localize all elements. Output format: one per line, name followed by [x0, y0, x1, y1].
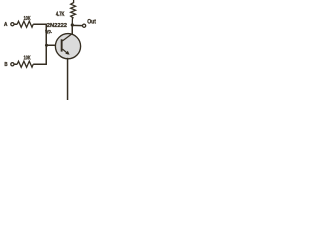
wire joining A and B branches (vertical) [45, 24, 47, 65]
svg-text:10K: 10K [24, 56, 32, 62]
wire base [47, 44, 62, 46]
svg-text:4.7K: 4.7K [56, 12, 65, 18]
wire to Out terminal [72, 24, 82, 26]
svg-text:Out: Out [87, 18, 96, 25]
junction base node [45, 44, 48, 47]
wire A terminal to resistor [14, 23, 17, 25]
junction collector node [71, 23, 74, 26]
wire R2 to joining node [33, 63, 46, 65]
wire R1 to joining node [33, 23, 46, 25]
resistor R2 10K (input B) [17, 61, 33, 67]
svg-text:A: A [4, 22, 8, 28]
resistor R3 4.7K (pull-up, vertical) [71, 0, 76, 24]
svg-text:typ.: typ. [45, 29, 52, 35]
svg-text:10K: 10K [24, 16, 32, 22]
svg-text:B: B [4, 62, 7, 68]
wire B terminal to resistor [14, 63, 17, 65]
terminal A [11, 23, 14, 26]
terminal B [11, 63, 14, 66]
wire collector up [71, 25, 73, 34]
resistor R1 10K (input A) [17, 21, 33, 27]
wire emitter to ground (cropped at bottom edge) [67, 58, 69, 100]
terminal Out [83, 24, 86, 27]
transistor Q1 2N2222 (NPN) [55, 34, 80, 59]
